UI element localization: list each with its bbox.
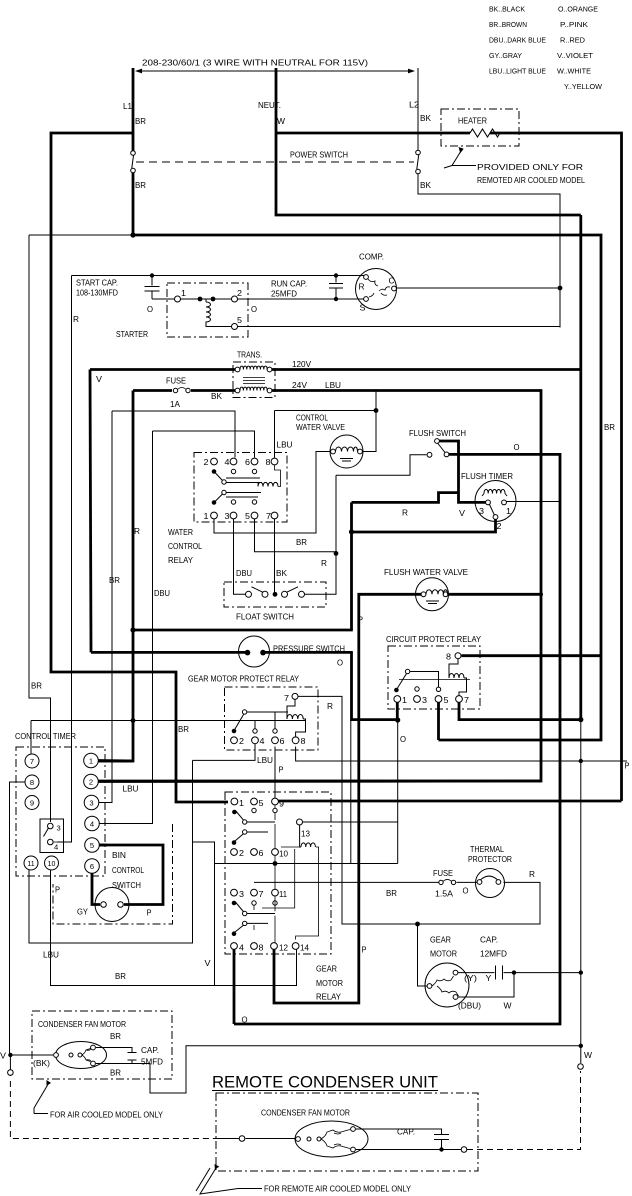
svg-text:R: R xyxy=(321,559,327,568)
svg-text:(BK): (BK) xyxy=(33,1059,50,1068)
svg-text:DBU..DARK BLUE: DBU..DARK BLUE xyxy=(489,38,546,45)
svg-text:W: W xyxy=(504,1002,512,1011)
svg-text:P: P xyxy=(55,886,60,895)
svg-text:CAP.: CAP. xyxy=(397,1128,415,1137)
svg-text:2: 2 xyxy=(237,289,242,298)
svg-text:BR: BR xyxy=(386,889,397,898)
svg-text:BR: BR xyxy=(604,423,615,432)
svg-text:C: C xyxy=(389,277,395,286)
svg-text:V: V xyxy=(0,1052,7,1061)
svg-text:HEATER: HEATER xyxy=(458,117,487,126)
svg-text:P: P xyxy=(625,762,630,771)
svg-text:3: 3 xyxy=(89,799,93,808)
svg-text:CONTROL TIMER: CONTROL TIMER xyxy=(15,732,76,741)
svg-text:120V: 120V xyxy=(292,360,312,369)
svg-text:9: 9 xyxy=(30,799,34,808)
svg-text:V: V xyxy=(459,509,466,518)
svg-text:REMOTE CONDENSER UNIT: REMOTE CONDENSER UNIT xyxy=(212,1074,438,1092)
svg-text:7: 7 xyxy=(464,696,469,705)
svg-text:4: 4 xyxy=(239,944,244,953)
svg-text:6: 6 xyxy=(245,458,250,467)
svg-text:LBU: LBU xyxy=(43,951,59,960)
svg-text:2: 2 xyxy=(497,522,502,531)
svg-text:PROTECTOR: PROTECTOR xyxy=(468,855,512,864)
svg-text:13: 13 xyxy=(301,830,310,839)
svg-text:R: R xyxy=(73,315,79,324)
svg-text:BK: BK xyxy=(276,569,288,578)
svg-text:8: 8 xyxy=(30,778,34,787)
svg-text:O: O xyxy=(242,1016,248,1025)
svg-text:CONDENSER FAN MOTOR: CONDENSER FAN MOTOR xyxy=(261,1109,350,1118)
svg-text:10: 10 xyxy=(279,850,288,859)
svg-text:8: 8 xyxy=(301,737,306,746)
svg-text:Y..YELLOW: Y..YELLOW xyxy=(564,84,602,91)
svg-text:PRESSURE SWITCH: PRESSURE SWITCH xyxy=(273,645,345,654)
svg-text:GEAR: GEAR xyxy=(430,936,451,945)
svg-text:LBU..LIGHT BLUE: LBU..LIGHT BLUE xyxy=(489,69,546,76)
svg-text:START CAP.: START CAP. xyxy=(76,279,118,288)
svg-text:FLUSH WATER VALVE: FLUSH WATER VALVE xyxy=(384,568,469,577)
svg-text:DBU: DBU xyxy=(154,589,170,598)
svg-text:12: 12 xyxy=(279,944,288,953)
svg-text:P: P xyxy=(358,616,363,625)
svg-text:5: 5 xyxy=(444,696,449,705)
svg-text:NEUT.: NEUT. xyxy=(258,101,281,110)
svg-text:O: O xyxy=(514,443,520,452)
svg-text:TRANS.: TRANS. xyxy=(237,351,262,360)
svg-text:WATER: WATER xyxy=(168,528,193,537)
svg-text:24V: 24V xyxy=(292,381,308,390)
svg-text:1.5A: 1.5A xyxy=(435,890,454,899)
svg-text:8: 8 xyxy=(259,944,264,953)
svg-text:7: 7 xyxy=(284,694,289,703)
svg-text:208-230/60/1 (3 WIRE WITH NEUT: 208-230/60/1 (3 WIRE WITH NEUTRAL FOR 11… xyxy=(142,59,368,68)
svg-text:25MFD: 25MFD xyxy=(271,290,297,299)
svg-text:11: 11 xyxy=(279,890,287,899)
svg-text:7: 7 xyxy=(266,512,271,521)
svg-text:W: W xyxy=(584,1051,592,1060)
svg-text:1: 1 xyxy=(181,289,186,298)
svg-text:LBU: LBU xyxy=(257,756,273,765)
svg-text:L1: L1 xyxy=(123,102,132,111)
svg-text:8: 8 xyxy=(266,458,271,467)
svg-text:9: 9 xyxy=(279,800,284,809)
svg-text:LBU: LBU xyxy=(277,441,293,450)
svg-text:R: R xyxy=(402,509,408,518)
svg-text:4: 4 xyxy=(225,458,230,467)
svg-text:GY..GRAY: GY..GRAY xyxy=(489,53,522,60)
svg-text:S: S xyxy=(360,304,367,313)
svg-text:CAP.: CAP. xyxy=(141,1046,159,1055)
svg-text:FLUSH TIMER: FLUSH TIMER xyxy=(461,472,513,481)
svg-text:1A: 1A xyxy=(170,400,181,409)
svg-text:14: 14 xyxy=(300,944,309,953)
svg-text:GEAR: GEAR xyxy=(316,965,337,974)
svg-text:THERMAL: THERMAL xyxy=(470,845,504,854)
svg-text:V: V xyxy=(205,959,212,968)
svg-text:108-130MFD: 108-130MFD xyxy=(76,289,118,298)
svg-text:FOR AIR COOLED MODEL ONLY: FOR AIR COOLED MODEL ONLY xyxy=(50,1111,163,1120)
svg-text:Y: Y xyxy=(486,974,493,983)
svg-text:R: R xyxy=(359,283,365,292)
svg-text:MOTOR: MOTOR xyxy=(430,950,457,959)
svg-text:BR: BR xyxy=(296,538,307,547)
svg-text:R: R xyxy=(529,870,535,879)
svg-text:BIN: BIN xyxy=(112,851,126,860)
svg-text:RELAY: RELAY xyxy=(316,993,342,1002)
svg-text:O..ORANGE: O..ORANGE xyxy=(558,7,598,14)
svg-text:LBU: LBU xyxy=(325,381,341,390)
svg-text:BK: BK xyxy=(211,392,223,401)
svg-text:O: O xyxy=(147,305,153,314)
svg-text:BR: BR xyxy=(135,181,146,190)
svg-text:BR: BR xyxy=(135,117,146,126)
svg-text:12MFD: 12MFD xyxy=(480,950,507,959)
svg-text:LBU: LBU xyxy=(123,785,139,794)
svg-text:FOR REMOTE AIR COOLED MODEL ON: FOR REMOTE AIR COOLED MODEL ONLY xyxy=(264,1185,411,1194)
svg-text:(DBU): (DBU) xyxy=(458,1002,481,1011)
svg-text:4: 4 xyxy=(260,737,265,746)
svg-text:STARTER: STARTER xyxy=(116,330,148,339)
svg-text:REMOTED AIR COOLED MODEL: REMOTED AIR COOLED MODEL xyxy=(477,176,585,185)
svg-text:CIRCUIT PROTECT RELAY: CIRCUIT PROTECT RELAY xyxy=(386,635,481,644)
svg-text:2: 2 xyxy=(89,778,93,787)
svg-text:10: 10 xyxy=(48,861,56,868)
svg-text:7: 7 xyxy=(30,757,34,766)
svg-text:O: O xyxy=(463,887,469,896)
svg-text:BR: BR xyxy=(110,1032,121,1041)
svg-text:3: 3 xyxy=(57,824,61,833)
svg-text:BR: BR xyxy=(110,1069,121,1078)
svg-text:FUSE: FUSE xyxy=(433,869,453,878)
svg-text:GY: GY xyxy=(77,908,88,917)
svg-text:DBU: DBU xyxy=(236,569,252,578)
svg-text:V..VIOLET: V..VIOLET xyxy=(557,53,594,60)
svg-text:CONDENSER FAN MOTOR: CONDENSER FAN MOTOR xyxy=(38,1020,126,1029)
svg-text:L2: L2 xyxy=(409,101,419,110)
svg-text:O: O xyxy=(400,735,406,744)
svg-text:O: O xyxy=(337,659,343,668)
svg-text:5: 5 xyxy=(259,799,264,808)
svg-text:R: R xyxy=(134,527,140,536)
svg-text:SWITCH: SWITCH xyxy=(112,881,141,890)
svg-text:6: 6 xyxy=(90,862,94,871)
svg-text:6: 6 xyxy=(280,737,285,746)
svg-text:POWER SWITCH: POWER SWITCH xyxy=(290,151,348,160)
svg-text:BR: BR xyxy=(178,725,189,734)
svg-text:FLOAT SWITCH: FLOAT SWITCH xyxy=(236,613,294,622)
svg-text:4: 4 xyxy=(54,843,58,852)
svg-text:1: 1 xyxy=(402,696,407,705)
svg-text:BK: BK xyxy=(420,181,432,190)
svg-text:1: 1 xyxy=(506,507,511,516)
svg-text:7: 7 xyxy=(259,890,264,899)
svg-text:P..PINK: P..PINK xyxy=(560,22,588,29)
svg-text:3: 3 xyxy=(239,890,244,899)
svg-text:W: W xyxy=(277,117,285,126)
svg-text:PROVIDED ONLY FOR: PROVIDED ONLY FOR xyxy=(477,163,583,172)
svg-text:BK..BLACK: BK..BLACK xyxy=(489,7,525,14)
svg-text:5MFD: 5MFD xyxy=(141,1058,163,1067)
svg-text:5: 5 xyxy=(245,512,250,521)
svg-text:P: P xyxy=(362,946,367,955)
svg-text:3: 3 xyxy=(422,696,427,705)
svg-text:RUN CAP.: RUN CAP. xyxy=(271,280,307,289)
svg-text:R..RED: R..RED xyxy=(560,38,585,45)
svg-text:WATER VALVE: WATER VALVE xyxy=(296,423,345,432)
svg-text:O: O xyxy=(251,305,257,314)
svg-text:4: 4 xyxy=(90,820,94,829)
svg-text:BR: BR xyxy=(31,682,42,691)
svg-text:RELAY: RELAY xyxy=(168,556,194,565)
svg-text:3: 3 xyxy=(479,507,484,516)
svg-text:GEAR MOTOR PROTECT RELAY: GEAR MOTOR PROTECT RELAY xyxy=(188,675,299,684)
svg-text:5: 5 xyxy=(237,316,242,325)
svg-text:1: 1 xyxy=(204,512,209,521)
svg-text:2: 2 xyxy=(204,458,209,467)
svg-text:BK: BK xyxy=(420,114,432,123)
svg-text:BR: BR xyxy=(109,576,120,585)
svg-text:CONTROL: CONTROL xyxy=(296,414,328,423)
svg-text:11: 11 xyxy=(27,861,34,868)
svg-text:P: P xyxy=(147,909,152,918)
svg-text:5: 5 xyxy=(90,841,94,850)
svg-text:3: 3 xyxy=(225,512,230,521)
svg-text:CONTROL: CONTROL xyxy=(112,866,144,875)
svg-text:8: 8 xyxy=(446,653,451,662)
svg-text:R: R xyxy=(327,702,333,711)
svg-text:MOTOR: MOTOR xyxy=(316,979,343,988)
svg-text:6: 6 xyxy=(259,849,264,858)
svg-text:2: 2 xyxy=(239,849,244,858)
svg-text:(Y): (Y) xyxy=(464,974,477,983)
svg-text:1: 1 xyxy=(239,799,244,808)
svg-text:BR..BROWN: BR..BROWN xyxy=(489,22,527,29)
svg-text:1: 1 xyxy=(89,757,93,766)
svg-text:FLUSH SWITCH: FLUSH SWITCH xyxy=(409,429,466,438)
svg-text:P: P xyxy=(279,766,284,775)
svg-text:BR: BR xyxy=(115,972,126,981)
svg-text:CONTROL: CONTROL xyxy=(168,542,202,551)
svg-text:V: V xyxy=(96,375,103,384)
svg-text:W..WHITE: W..WHITE xyxy=(557,69,591,76)
svg-text:FUSE: FUSE xyxy=(166,377,186,386)
svg-text:CAP.: CAP. xyxy=(480,936,498,945)
svg-text:2: 2 xyxy=(239,737,244,746)
svg-text:COMP.: COMP. xyxy=(359,253,384,262)
